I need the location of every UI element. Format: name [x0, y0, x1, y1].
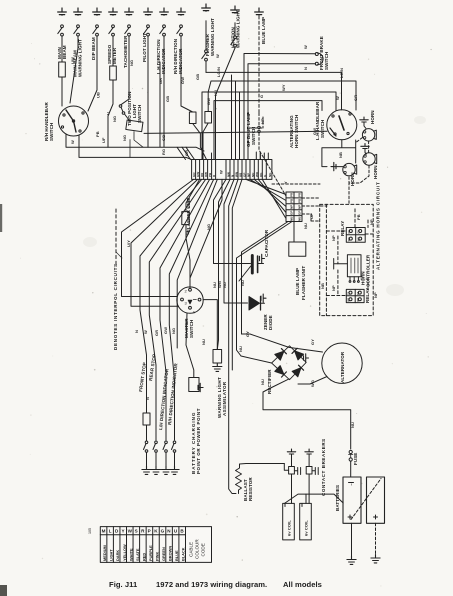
fan wire 6 RH dir GW: [169, 179, 213, 440]
wire master switch to assimilator: [186, 313, 194, 378]
svg-text:NP: NP: [331, 285, 336, 291]
svg-text:REAR STOP: REAR STOP: [148, 354, 157, 382]
bus NU to capacitor: [214, 179, 251, 263]
flasher unit wire: [186, 179, 200, 211]
blue lamp flasher unit wire: [293, 222, 295, 243]
fan wire 2 to master switch lower line: [131, 179, 198, 306]
paper background noise: [83, 116, 426, 296]
coil 1: [283, 503, 295, 540]
svg-text:BLUE LAMP: BLUE LAMP: [261, 17, 266, 44]
svg-text:LG/N: LG/N: [339, 68, 344, 78]
blue lamp switch dashed group: [250, 113, 327, 221]
svg-text:S: S: [135, 529, 138, 534]
lamp SPEEDO METER: [109, 8, 118, 15]
nest line A to LH switch: [206, 72, 342, 159]
wire resistor to block: [203, 123, 208, 160]
svg-text:COLOUR: COLOUR: [195, 539, 200, 559]
connector block 2: [286, 192, 302, 222]
two position light switch circles: [119, 105, 122, 108]
wire W from RH switch bottom: [66, 135, 204, 160]
svg-text:HORN SWITCH: HORN SWITCH: [294, 115, 299, 148]
relay 2: [346, 289, 364, 302]
svg-text:W: W: [185, 231, 190, 235]
switch: [93, 25, 99, 37]
svg-text:CONTROLLER: CONTROLLER: [366, 254, 371, 287]
caption: [109, 580, 322, 589]
svg-text:HORN: HORN: [350, 172, 355, 186]
svg-text:GY: GY: [310, 339, 315, 345]
svg-text:LG/N: LG/N: [216, 67, 221, 77]
lamp PILOT LIGHT: [144, 8, 153, 15]
svg-text:GB: GB: [165, 96, 170, 102]
switch: [144, 25, 150, 37]
fuse: [349, 450, 352, 453]
svg-text:PB: PB: [290, 198, 294, 203]
switch LH dir: [165, 441, 168, 444]
wire fuse to RH switch: [61, 77, 63, 106]
blue lamp dashed column: [258, 16, 260, 113]
wire to fuse: [112, 37, 114, 66]
switch flasher warning: [202, 50, 208, 62]
coil feed diagonal: [285, 494, 344, 503]
svg-text:WARNING LIGHT: WARNING LIGHT: [210, 18, 215, 56]
wire main beam to fuse: [61, 37, 63, 62]
svg-text:BROWN: BROWN: [168, 546, 173, 561]
rectifier ground: [304, 354, 309, 362]
lamp LH DIRECTION INDICATOR: [160, 8, 169, 15]
svg-text:NU: NU: [303, 223, 308, 229]
blue lamp flasher unit box: [289, 242, 306, 256]
resistor box GW: [189, 112, 196, 124]
svg-text:NG: NG: [129, 60, 134, 66]
svg-text:CABLE: CABLE: [189, 542, 194, 557]
svg-text:ALTERNATOR: ALTERNATOR: [340, 351, 345, 383]
horn 1: [362, 129, 376, 141]
dashed links relay2: [326, 270, 346, 296]
svg-text:HORN: HORN: [370, 110, 375, 124]
svg-text:UW: UW: [70, 57, 75, 64]
svg-text:LG/N: LG/N: [186, 198, 191, 208]
svg-text:GW: GW: [163, 327, 168, 334]
svg-text:GR: GR: [154, 330, 159, 336]
svg-text:G: G: [259, 95, 264, 98]
svg-text:C2: C2: [356, 291, 360, 295]
rectifier diamond: [272, 346, 307, 380]
svg-text:U: U: [212, 175, 216, 177]
svg-text:GR: GR: [158, 78, 163, 84]
lamp IGNITION WARNING LIGHT: [231, 6, 240, 13]
svg-text:RELAY: RELAY: [340, 221, 345, 236]
svg-text:NP: NP: [369, 219, 374, 225]
two position light switch box: [126, 120, 143, 132]
svg-text:BLUE LAMP: BLUE LAMP: [295, 268, 300, 295]
wires connector2 down-left to buses: [237, 222, 293, 357]
scan edge artifacts: [0, 204, 2, 232]
svg-text:Fig. J11: Fig. J11: [109, 580, 138, 589]
ground horn2: [361, 144, 369, 149]
dashed links controller: [338, 236, 368, 290]
wire from LH switch bottom: [322, 140, 356, 167]
wire U/W diagonal to RH switch: [70, 37, 78, 103]
RH switch internals: [66, 110, 76, 132]
svg-text:SWITCH: SWITCH: [49, 123, 54, 141]
svg-text:GB: GB: [195, 74, 200, 80]
stubs right cells: [260, 153, 268, 160]
svg-text:ASSIMILATOR: ASSIMILATOR: [222, 381, 227, 416]
svg-text:WARNING LIGHT: WARNING LIGHT: [78, 39, 83, 77]
svg-text:BEAM: BEAM: [62, 45, 67, 59]
svg-text:W: W: [128, 529, 133, 534]
fuse speedo: [110, 66, 117, 80]
switch: [125, 25, 131, 37]
fan wire 1 to master switch top line: [122, 179, 194, 296]
svg-text:N: N: [134, 330, 139, 333]
connector2 cell letters: [290, 192, 302, 221]
ground horn3 (left, rotated): [331, 162, 336, 170]
svg-text:105: 105: [88, 528, 92, 534]
svg-text:WG: WG: [310, 380, 315, 387]
RH handlebar switch circle: [59, 106, 89, 136]
svg-text:NU: NU: [238, 346, 243, 352]
svg-text:NP: NP: [373, 292, 378, 298]
NU wire to rectifier left: [241, 356, 272, 363]
warning light assimilator box: [189, 378, 199, 392]
svg-text:RG: RG: [161, 149, 166, 155]
svg-text:GP: GP: [309, 213, 314, 219]
fan wire 4 rear stop W: [149, 179, 205, 440]
wire speedo down: [108, 80, 113, 147]
LH handlebar switch circle: [327, 110, 357, 140]
svg-text:PINK: PINK: [155, 552, 160, 561]
wire from light switch box down to bus: [130, 132, 143, 158]
svg-text:NU: NU: [240, 280, 245, 286]
svg-text:W: W: [70, 140, 75, 144]
svg-text:SWITCH: SWITCH: [189, 320, 194, 338]
svg-text:PB: PB: [95, 131, 100, 137]
svg-text:NU: NU: [350, 422, 355, 428]
svg-text:RED: RED: [141, 553, 146, 561]
GY wire: [242, 334, 323, 352]
svg-text:PR: PR: [298, 192, 302, 197]
svg-text:C1: C1: [347, 230, 351, 234]
svg-text:GR: GR: [184, 150, 189, 156]
switch: [177, 25, 183, 37]
svg-text:U: U: [106, 112, 111, 115]
battery 2: [367, 477, 385, 523]
svg-text:Y: Y: [122, 529, 125, 534]
svg-text:6v COIL: 6v COIL: [304, 520, 309, 536]
svg-text:W: W: [303, 45, 308, 49]
horn 2: [363, 153, 377, 165]
svg-text:SWITCH: SWITCH: [324, 52, 329, 70]
CB1 ground: [287, 449, 295, 454]
svg-text:BATTERIES: BATTERIES: [335, 485, 340, 511]
wire GB vertical: [159, 62, 161, 147]
connector block: [192, 160, 272, 180]
lamp RH DIRECTION INDICATOR: [177, 8, 186, 15]
svg-text:FLASHER UNIT: FLASHER UNIT: [301, 266, 306, 300]
flasher unit box: [182, 212, 189, 225]
svg-text:SWITCH: SWITCH: [320, 120, 325, 138]
svg-text:RELAY: RELAY: [365, 288, 370, 303]
svg-text:FUSE: FUSE: [353, 453, 358, 465]
svg-text:1972 and 1973 wiring diagram.: 1972 and 1973 wiring diagram.: [156, 580, 267, 589]
svg-text:M: M: [102, 529, 106, 534]
svg-text:W1: W1: [347, 297, 351, 301]
relay 1: [346, 228, 365, 243]
svg-text:N: N: [303, 67, 308, 70]
svg-text:CAPACITOR: CAPACITOR: [264, 229, 269, 257]
svg-text:METER: METER: [112, 47, 117, 64]
switch front stop: [146, 440, 148, 441]
svg-text:3: 3: [185, 301, 188, 306]
svg-text:W: W: [215, 54, 220, 58]
svg-text:SWITCH: SWITCH: [251, 127, 256, 145]
svg-text:NG: NG: [206, 224, 211, 230]
svg-text:UF: UF: [101, 137, 106, 143]
svg-text:WARNING LIGHT: WARNING LIGHT: [236, 10, 241, 48]
wire LG/N down to resistor: [205, 4, 207, 72]
svg-text:NB: NB: [320, 283, 325, 289]
nest line C: [202, 92, 336, 160]
wire from RH switch bottom 2: [79, 136, 191, 160]
switch: [160, 25, 166, 37]
svg-text:WHITE: WHITE: [128, 548, 133, 561]
resistor box LG/N: [205, 112, 212, 124]
svg-text:NB: NB: [338, 152, 343, 158]
svg-text:RESISTOR: RESISTOR: [248, 477, 253, 501]
lamp MAIN BEAM: [58, 8, 67, 15]
switch RH dir: [173, 441, 176, 444]
svg-text:PR: PR: [290, 192, 294, 197]
ground horn1: [360, 117, 368, 122]
svg-text:CONTACT BREAKERS: CONTACT BREAKERS: [321, 438, 326, 496]
svg-text:6v COIL: 6v COIL: [287, 520, 292, 536]
flasher unit lower wire: [186, 225, 190, 278]
nest wire W to front brake: [244, 54, 315, 160]
nest line B to horn column: [208, 81, 356, 160]
table header: [189, 539, 206, 559]
svg-text:PB: PB: [298, 198, 302, 203]
front stop fuse: [143, 413, 150, 425]
svg-text:P: P: [148, 529, 151, 534]
svg-text:U/Y: U/Y: [126, 240, 131, 247]
alternator WG lead: [298, 377, 327, 385]
svg-text:TACHOMETER: TACHOMETER: [123, 35, 128, 68]
dashed box: [320, 204, 374, 315]
table letters: [102, 529, 185, 534]
svg-text:SWITCH: SWITCH: [137, 105, 142, 123]
svg-text:GB: GB: [161, 135, 166, 141]
bus WN: [217, 179, 230, 349]
svg-text:GY: GY: [245, 331, 250, 337]
horn controller: [334, 255, 361, 283]
lamp TACHOMETER: [125, 8, 134, 15]
svg-text:YELLOW: YELLOW: [122, 544, 127, 561]
dashed links relay1: [326, 208, 373, 234]
svg-text:RECTIFIER: RECTIFIER: [267, 369, 272, 394]
svg-text:FRONT STOP: FRONT STOP: [138, 362, 147, 392]
svg-text:DARK: DARK: [115, 550, 120, 561]
fuse on NU wire: [213, 350, 222, 364]
svg-text:POINT OR POWER POINT: POINT OR POWER POINT: [196, 408, 201, 474]
svg-text:N: N: [145, 397, 150, 400]
svg-text:PB: PB: [356, 214, 361, 220]
svg-text:G: G: [161, 529, 165, 534]
svg-text:UB: UB: [96, 92, 101, 98]
svg-text:GW: GW: [206, 98, 211, 105]
svg-text:CODE: CODE: [201, 543, 206, 556]
svg-text:LIGHT: LIGHT: [109, 549, 114, 561]
CB1 capacitor: [289, 467, 295, 475]
W wire block to master switch: [190, 179, 222, 288]
bus NU 2 to zener: [224, 179, 248, 303]
battery link dashed: [351, 479, 381, 520]
switch: [109, 25, 115, 37]
svg-text:GP: GP: [290, 211, 294, 215]
lamp MAIN BEAM WARNING LIGHT: [74, 8, 83, 15]
svg-text:GREEN: GREEN: [161, 547, 166, 561]
svg-text:NU: NU: [298, 217, 302, 221]
diagonals block to connector2: [246, 179, 286, 218]
assimilator ground: [199, 387, 203, 389]
svg-text:L: L: [109, 529, 112, 534]
lamp BLUE LAMP: [255, 8, 264, 15]
wire resistor to block: [193, 124, 207, 160]
switch main beam: [58, 25, 64, 37]
wire stub cells: [211, 153, 213, 160]
svg-text:W2: W2: [356, 237, 360, 241]
CB2 ground: [305, 449, 313, 454]
battery 2 dashed ground: [375, 523, 377, 554]
svg-text:NP: NP: [331, 235, 336, 241]
svg-text:HORN: HORN: [373, 165, 378, 179]
svg-text:NP: NP: [260, 118, 265, 124]
master switch NU wire right: [203, 300, 217, 350]
svg-text:NG: NG: [112, 116, 117, 122]
dashed horn links: [349, 138, 369, 205]
connector block cell letters: [192, 170, 272, 177]
svg-text:C1: C1: [347, 291, 351, 295]
svg-text:INDICATOR: INDICATOR: [178, 48, 183, 74]
svg-text:BLACK: BLACK: [181, 547, 186, 561]
svg-text:GR: GR: [353, 95, 358, 101]
svg-text:W: W: [335, 96, 340, 100]
svg-text:All models: All models: [283, 580, 322, 589]
svg-text:WY: WY: [281, 84, 286, 91]
svg-text:NU: NU: [290, 217, 294, 221]
wire GR down: [163, 37, 165, 147]
wire pilot light down: [147, 37, 149, 147]
wire UB to RH switch: [88, 37, 97, 111]
bus 5: [232, 179, 242, 370]
svg-text:W2: W2: [356, 297, 360, 301]
svg-text:GW: GW: [180, 77, 185, 84]
switch: [74, 25, 80, 37]
capacitor ground: [260, 254, 265, 262]
svg-text:NU: NU: [213, 90, 218, 96]
svg-text:W1: W1: [347, 237, 351, 241]
svg-text:NG: NG: [122, 135, 127, 141]
relay cell letters: [347, 230, 361, 302]
svg-text:PILOT LIGHT: PILOT LIGHT: [142, 33, 147, 62]
wire NG down: [121, 37, 129, 105]
front brake switch pill: [317, 53, 323, 65]
wire W down then to block W cell: [216, 23, 236, 160]
battery 1 ground: [351, 523, 353, 556]
svg-text:NU: NU: [201, 339, 206, 345]
wire GW down to resistor: [181, 37, 193, 112]
svg-text:PURPLE: PURPLE: [148, 545, 153, 561]
lamp DIP BEAM: [93, 8, 102, 15]
grounds: [142, 466, 151, 474]
lamp FLASHER WARNING LIGHT: [202, 4, 211, 11]
svg-text:INDICATOR: INDICATOR: [161, 48, 166, 74]
svg-text:GP: GP: [298, 211, 302, 215]
svg-text:NG: NG: [171, 328, 176, 334]
fan wire 3 front stop N: [140, 179, 202, 413]
svg-text:DIODE: DIODE: [268, 315, 273, 330]
svg-text:C2: C2: [356, 230, 360, 234]
LH switch internals: [339, 116, 344, 130]
svg-text:DENOTES INTERPOL CIRCUITS: DENOTES INTERPOL CIRCUITS: [113, 263, 118, 350]
inner dashed vertical: [325, 204, 327, 315]
svg-text:GW: GW: [312, 128, 317, 135]
svg-text:MEDIUM: MEDIUM: [102, 545, 107, 561]
svg-text:Y: Y: [283, 181, 288, 184]
svg-text:NU: NU: [222, 282, 227, 288]
fan wire 5 LH dir GR: [160, 179, 210, 440]
switch rear stop: [155, 441, 158, 444]
fan wire 7 NG: [177, 179, 217, 348]
alternator: [322, 343, 362, 383]
switch ignition warning: [231, 36, 237, 48]
svg-text:SLATE: SLATE: [135, 548, 140, 561]
svg-text:NU: NU: [260, 379, 265, 385]
nest wire N to front brake: [248, 64, 315, 160]
svg-text:ALTERNATING HORNS CIRCUIT: ALTERNATING HORNS CIRCUIT: [376, 181, 381, 270]
fuse main beam: [59, 62, 66, 77]
bus to ballast (long): [229, 179, 238, 493]
NU wire rectifier to fuse: [263, 379, 351, 449]
svg-text:NG: NG: [268, 172, 272, 177]
svg-text:NP: NP: [290, 205, 294, 209]
svg-text:2: 2: [185, 289, 188, 294]
horn 3: [343, 163, 357, 175]
svg-text:BLUE: BLUE: [174, 550, 179, 561]
svg-text:DIP BEAM: DIP BEAM: [91, 37, 96, 60]
nest line D LG/N from brake switch: [214, 101, 322, 160]
coil 2: [300, 503, 312, 540]
ground under fuse: [213, 363, 222, 371]
GW line from LH switch: [144, 131, 327, 159]
svg-text:NP: NP: [298, 205, 302, 209]
svg-text:W: W: [219, 170, 224, 174]
diagonals into block: [182, 147, 195, 159]
battery 1: [343, 477, 361, 523]
CB2 capacitor: [306, 467, 312, 475]
svg-text:W: W: [143, 330, 148, 334]
